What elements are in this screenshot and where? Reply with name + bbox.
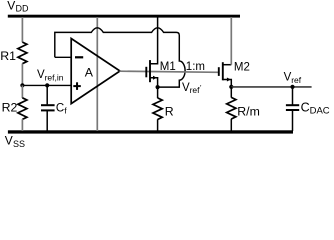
VDD rail	[8, 15, 240, 18]
junction Vref,in / Cf	[45, 83, 49, 87]
capacitor CDAC	[286, 104, 299, 106]
junction Vref,in / R1 R2	[20, 83, 24, 87]
wire CDAC to VSS rail	[292, 110, 294, 131]
wire Vref node to output stub	[231, 86, 311, 88]
svg-text:C: C	[301, 101, 310, 115]
svg-text:V: V	[7, 0, 15, 12]
capacitor Cf	[41, 104, 55, 106]
svg-text:ref,in: ref,in	[45, 72, 64, 82]
wire R to VSS rail	[157, 119, 159, 131]
op-amp A triangle	[71, 39, 120, 104]
wire Vref' to R	[157, 87, 159, 98]
svg-text:R/m: R/m	[237, 104, 260, 118]
junction Vref / M2 source	[229, 85, 233, 89]
op-amp minus symbol	[75, 56, 83, 58]
svg-text:R2: R2	[2, 101, 18, 115]
svg-text:M2: M2	[234, 61, 250, 73]
resistor R	[153, 98, 162, 120]
svg-text:A: A	[85, 65, 94, 79]
wire op-amp output / gate line to M1 M2	[120, 71, 219, 72]
wire Vref,in to Cf	[46, 85, 48, 104]
wire Cf to VSS rail	[46, 110, 48, 131]
svg-text:ref: ref	[190, 85, 201, 95]
wire Vref to CDAC	[292, 87, 294, 105]
resistor R2	[18, 98, 27, 120]
resistor R/m	[227, 97, 236, 119]
op-amp inverting input lead	[55, 56, 71, 58]
wire Vref to R/m	[230, 87, 232, 98]
wire op-amp supply (VDD to VSS through symbol)	[96, 17, 98, 131]
transistor M1	[145, 67, 147, 78]
wire R2 to VSS rail	[21, 119, 23, 131]
node Vref,in wire to op-amp + input	[22, 84, 71, 86]
wire Vref,in to R2	[21, 85, 23, 98]
svg-text:R1: R1	[0, 49, 16, 63]
svg-text:SS: SS	[13, 139, 25, 149]
junction Vref / CDAC	[290, 85, 294, 89]
wire R1 to node Vref,in	[21, 64, 23, 86]
svg-text:DAC: DAC	[310, 106, 330, 117]
svg-text:ref: ref	[291, 75, 302, 85]
svg-text:M1: M1	[160, 61, 176, 73]
svg-text:DD: DD	[16, 4, 29, 14]
wire feedback: minus input up, across with hops, down to Vref'	[55, 28, 185, 87]
svg-text:R: R	[165, 104, 174, 118]
wire R/m to VSS rail	[230, 119, 232, 131]
resistor R1	[18, 42, 27, 64]
svg-text:C: C	[56, 102, 64, 114]
transistor M2	[218, 67, 220, 76]
svg-text:1:m: 1:m	[186, 61, 205, 73]
wire VDD rail to R1	[21, 17, 23, 42]
op-amp plus symbol	[73, 85, 81, 87]
VSS rail	[8, 130, 293, 133]
svg-text:V: V	[5, 134, 13, 148]
junction Vref'	[156, 85, 160, 89]
